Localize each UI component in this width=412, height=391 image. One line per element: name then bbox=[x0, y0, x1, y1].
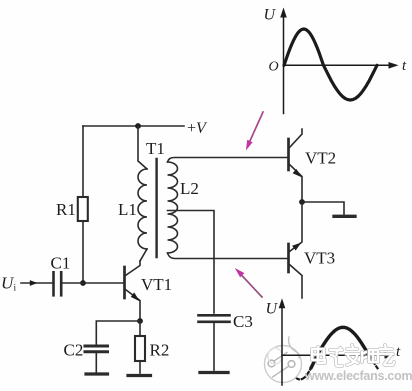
output curve solid hump bbox=[311, 327, 369, 368]
VT2 emitter arrowhead bbox=[293, 169, 302, 177]
watermark chinese characters white body bbox=[312, 345, 394, 366]
svg-text:R2: R2 bbox=[150, 341, 170, 360]
svg-text:t: t bbox=[402, 58, 407, 74]
annotation arrow to VT3 drive wire bbox=[235, 268, 262, 297]
transistor VT3 collector lead (bottom) bbox=[290, 265, 303, 299]
svg-text:i: i bbox=[14, 284, 17, 294]
svg-text:+V: +V bbox=[187, 120, 208, 137]
svg-text:VT1: VT1 bbox=[141, 275, 172, 294]
annotation arrow to VT2 drive wire bbox=[246, 112, 263, 151]
capacitor C1 bbox=[54, 272, 62, 295]
VT1 emitter arrowhead bbox=[131, 292, 140, 301]
transformer T1 primary winding L1 bbox=[138, 169, 147, 249]
svg-text:O: O bbox=[269, 60, 279, 75]
transistor VT3 emitter lead with arrow (top) bbox=[290, 202, 303, 252]
wire L2 center tap bbox=[168, 211, 215, 314]
capacitor C3 bbox=[199, 315, 230, 322]
transistor VT2 emitter lead with arrow bbox=[290, 165, 303, 203]
transformer T1 core bbox=[155, 159, 157, 257]
VT3 emitter arrowhead bbox=[292, 243, 301, 251]
input arrowhead bbox=[30, 280, 38, 286]
wire emitter node to R2 bbox=[139, 321, 141, 336]
axis t horizontal (top plot) bbox=[284, 64, 393, 66]
wire C1 to base node bbox=[63, 282, 124, 284]
transistor VT1 base bar bbox=[123, 267, 126, 298]
svg-text:C2: C2 bbox=[64, 341, 84, 360]
output curve dashed tail bbox=[370, 355, 378, 368]
transistor VT1 collector lead bbox=[126, 261, 141, 276]
svg-text:t: t bbox=[396, 344, 401, 360]
transistor VT1 emitter lead with arrow bbox=[126, 290, 141, 322]
sine wave curve (top plot) bbox=[284, 29, 377, 100]
ground output bbox=[334, 215, 355, 218]
svg-text:T1: T1 bbox=[146, 139, 165, 158]
watermark logo elecfans bbox=[265, 337, 302, 383]
svg-text:C1: C1 bbox=[51, 254, 71, 273]
ground under C3 bbox=[200, 371, 228, 374]
wire input lead with source arrow bbox=[21, 282, 52, 284]
axis t horizontal (bottom plot) bbox=[282, 354, 388, 356]
resistor R1 bbox=[78, 197, 88, 221]
node base junction bbox=[80, 280, 86, 286]
wire L2 bottom lead to VT3 base bbox=[168, 253, 288, 259]
svg-text:L1: L1 bbox=[118, 200, 137, 219]
wire emitter node to C2 bbox=[96, 321, 140, 345]
wire output node to ground bbox=[302, 202, 344, 214]
wire transformer primary top lead bbox=[138, 126, 147, 169]
watermark chinese characters 电子发烧友 gray halo bbox=[312, 345, 394, 366]
wire C3 to ground bbox=[213, 323, 215, 370]
axis U vertical (top plot) bbox=[283, 14, 285, 114]
node supply junction on +V rail bbox=[135, 123, 141, 129]
capacitor C2 bbox=[85, 346, 108, 352]
svg-text:U: U bbox=[266, 301, 279, 318]
axis U vertical (bottom plot) bbox=[279, 298, 395, 385]
svg-text:VT2: VT2 bbox=[305, 149, 336, 168]
svg-text:L2: L2 bbox=[180, 179, 199, 198]
transistor VT2 base bar bbox=[287, 139, 290, 170]
resistor R2 bbox=[135, 336, 145, 361]
transistor VT3 base bar bbox=[287, 244, 290, 272]
svg-text:U: U bbox=[264, 7, 277, 24]
wire R1 bottom lead to base node bbox=[82, 221, 84, 283]
wire C2 to ground bbox=[95, 353, 97, 372]
svg-text:C3: C3 bbox=[233, 312, 253, 331]
node VT1 emitter junction bbox=[137, 318, 143, 324]
transformer T1 secondary winding L2 bbox=[168, 162, 178, 253]
ground under C2 bbox=[86, 372, 108, 375]
wire R2 to ground bbox=[139, 361, 141, 373]
ground under R2 bbox=[128, 374, 151, 377]
transistor VT2 collector lead bbox=[290, 129, 303, 148]
wire R1 top lead from rail bbox=[82, 126, 84, 197]
svg-text:VT3: VT3 bbox=[304, 249, 335, 268]
waveform bottom: output curve dashed dip bbox=[283, 355, 311, 379]
node output junction between VT2 and VT3 bbox=[299, 199, 305, 205]
wire +V supply rail bbox=[83, 125, 184, 127]
svg-text:www.elecfans.com: www.elecfans.com bbox=[304, 369, 412, 383]
svg-text:R1: R1 bbox=[56, 200, 76, 219]
wire L1 bottom lead to VT1 collector bbox=[140, 249, 147, 261]
waveform top: input sine plot bbox=[280, 8, 398, 114]
wire L2 top lead to VT2 base bbox=[168, 158, 288, 163]
